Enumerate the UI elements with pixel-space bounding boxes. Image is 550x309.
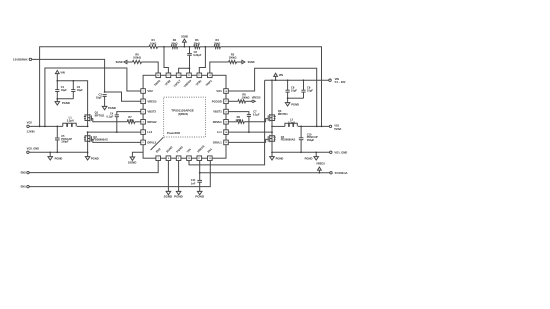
pin 24 TRIP2 bbox=[153, 73, 162, 87]
svg-text:VO2_GND: VO2_GND bbox=[27, 147, 40, 151]
wire LL2 bbox=[88, 131, 141, 133]
terminal VO1 bbox=[329, 123, 341, 131]
capacitor C1 bbox=[55, 81, 67, 99]
wire pin 10 VIN riser bbox=[189, 80, 265, 165]
ground PGND pin 9 bbox=[174, 191, 183, 198]
svg-text:DRVH1: DRVH1 bbox=[213, 120, 223, 124]
svg-text:IRF7811: IRF7811 bbox=[95, 113, 105, 117]
terminal VIN input left bbox=[13, 58, 32, 62]
wire tap to pin VFB2 bbox=[164, 47, 168, 73]
svg-text:PGND: PGND bbox=[305, 156, 313, 160]
svg-text:10µF: 10µF bbox=[61, 88, 67, 92]
svg-text:VIN: VIN bbox=[60, 70, 64, 74]
svg-text:PGOOD: PGOOD bbox=[212, 99, 222, 103]
node VIN flag right bbox=[274, 73, 283, 80]
svg-text:100kΩ: 100kΩ bbox=[133, 56, 141, 60]
svg-text:SGND: SGND bbox=[181, 35, 188, 38]
pin 22 V5FILT bbox=[173, 73, 182, 88]
svg-text:PGND: PGND bbox=[291, 103, 299, 107]
pin 7 EN2 bbox=[155, 147, 162, 161]
svg-text:10kΩ: 10kΩ bbox=[150, 41, 156, 45]
capacitor C6 bbox=[187, 47, 202, 73]
pin 21 VREG3 bbox=[183, 73, 193, 88]
wire VO1 output line bbox=[272, 125, 329, 127]
ground PGND under C3 bbox=[102, 106, 116, 110]
svg-text:(QFN24): (QFN24) bbox=[178, 112, 188, 116]
ground PGND under Q2 bbox=[85, 152, 98, 160]
svg-text:VO2: VO2 bbox=[27, 120, 33, 124]
svg-text:0.1µF: 0.1µF bbox=[253, 112, 260, 116]
svg-text:VO1_GND: VO1_GND bbox=[334, 150, 347, 154]
pin 18 VO1 bbox=[216, 89, 228, 94]
transistor Q4 bbox=[268, 126, 295, 152]
svg-text:EN1: EN1 bbox=[21, 185, 27, 189]
wire VO1 sense loop bbox=[228, 68, 316, 126]
svg-text:PGND: PGND bbox=[174, 195, 183, 199]
ground PGND under Q4 bbox=[270, 152, 284, 160]
pin 3 VBST2 bbox=[141, 109, 157, 114]
svg-text:39kΩ: 39kΩ bbox=[214, 41, 220, 45]
ground SGND flag on rail bbox=[181, 35, 188, 46]
capacitor C10 bbox=[299, 126, 318, 152]
svg-text:SGND: SGND bbox=[128, 160, 137, 164]
svg-text:100kΩ: 100kΩ bbox=[229, 56, 237, 60]
svg-text:150µF: 150µF bbox=[61, 139, 69, 143]
inductor L1 bbox=[63, 116, 76, 127]
svg-text:PGND: PGND bbox=[108, 106, 116, 110]
wire VO2 sense loop bbox=[45, 68, 141, 126]
terminal EN1 bbox=[21, 185, 30, 189]
pin 5 LL2 bbox=[141, 130, 153, 135]
svg-text:VREG5: VREG5 bbox=[147, 99, 157, 103]
svg-text:C11: C11 bbox=[191, 178, 196, 182]
svg-text:3.3µH: 3.3µH bbox=[67, 119, 74, 123]
wire pin 11 VREG5 bbox=[199, 161, 201, 181]
svg-text:0.1µF: 0.1µF bbox=[107, 115, 114, 119]
op-amp U1 TPS51120 chip outline bbox=[143, 75, 226, 158]
capacitor C4 bbox=[107, 112, 141, 133]
wire tap to pin VFB1 bbox=[199, 47, 205, 73]
terminal EN2 bbox=[21, 171, 30, 175]
U1 PowerPAD label and leader bbox=[151, 131, 181, 150]
pin 13 DRVL1 bbox=[213, 140, 228, 145]
svg-text:PGND: PGND bbox=[276, 156, 284, 160]
terminal VO1_GND bbox=[330, 150, 348, 154]
ground PGND right on ground line bbox=[305, 152, 319, 160]
svg-text:10µF: 10µF bbox=[96, 95, 102, 99]
svg-text:5.5 ~ 28V: 5.5 ~ 28V bbox=[335, 80, 346, 84]
svg-text:PGND: PGND bbox=[62, 101, 70, 105]
pin 17 PGOOD bbox=[212, 99, 229, 104]
node junction dots bbox=[39, 46, 323, 174]
resistor R1 bbox=[149, 38, 158, 48]
wire VIN local left bbox=[57, 81, 87, 115]
svg-text:20kΩ: 20kΩ bbox=[194, 41, 200, 45]
pin 23 VFB2 bbox=[164, 73, 172, 87]
node VREG5 flag bbox=[316, 161, 325, 172]
wire EN1 to pin 12 bbox=[29, 161, 210, 187]
svg-text:DRVL1: DRVL1 bbox=[213, 140, 222, 144]
wire DRVH2 with resistor R7 bbox=[91, 115, 140, 123]
svg-text:SGND: SGND bbox=[116, 61, 123, 64]
pin 6 DRVL2 bbox=[141, 140, 157, 145]
pin 10 VIN bbox=[186, 148, 192, 161]
svg-text:1nF: 1nF bbox=[191, 181, 196, 185]
svg-text:EN2: EN2 bbox=[21, 171, 27, 175]
svg-text:4.7Ω: 4.7Ω bbox=[235, 118, 241, 122]
transistor Q3 bbox=[268, 80, 288, 126]
resistor R3 bbox=[194, 38, 200, 48]
svg-text:FDS6690AS: FDS6690AS bbox=[93, 138, 108, 142]
svg-text:PGND: PGND bbox=[195, 195, 204, 199]
pin 9 PGND bbox=[175, 145, 183, 160]
wire LL1 bbox=[228, 131, 272, 133]
wire DRVH1 with resistor R9 bbox=[228, 115, 268, 123]
capacitor C2 bbox=[71, 81, 83, 99]
svg-text:5V/8A: 5V/8A bbox=[334, 127, 341, 131]
pin 15 DRVH1 bbox=[213, 120, 229, 125]
svg-text:PowerPAD: PowerPAD bbox=[167, 131, 180, 135]
pin 1 VO2 bbox=[141, 89, 153, 94]
resistor R2 bbox=[171, 38, 177, 48]
svg-text:SGND: SGND bbox=[248, 61, 255, 64]
pin 8 SGND bbox=[165, 145, 173, 160]
wire feedback rail bbox=[40, 47, 322, 127]
svg-text:4.7Ω: 4.7Ω bbox=[127, 118, 133, 122]
svg-text:PGND: PGND bbox=[91, 156, 99, 160]
resistor R6 bbox=[127, 53, 158, 73]
pin 19 TRIP1 bbox=[205, 73, 214, 87]
capacitor C3 bbox=[96, 92, 107, 106]
terminal VREG5 5V output bbox=[330, 171, 348, 175]
wire EN2 to pin 7 bbox=[29, 161, 158, 173]
svg-text:10µF: 10µF bbox=[291, 88, 297, 92]
svg-text:5V/100mA: 5V/100mA bbox=[335, 171, 348, 175]
U1 dashed body bbox=[164, 97, 206, 137]
terminal VO2_GND bbox=[27, 147, 40, 154]
wire C1 C2 join bbox=[57, 98, 73, 100]
ground PGND under C1 bbox=[55, 99, 70, 105]
pin 14 LL1 bbox=[217, 130, 228, 135]
pin 12 EN1 bbox=[206, 147, 213, 161]
svg-text:0.22µF: 0.22µF bbox=[193, 53, 202, 57]
svg-text:VBST1: VBST1 bbox=[213, 110, 222, 114]
terminal VIN right bbox=[329, 77, 346, 84]
capacitor C5 bbox=[55, 126, 72, 152]
ground PGND pin 11 bbox=[195, 191, 204, 198]
wire chip pad to SGND bbox=[132, 152, 143, 157]
ground PGND under C8 bbox=[285, 98, 299, 106]
svg-text:3.3µH: 3.3µH bbox=[288, 120, 295, 124]
node VREG5 flag at R8 bbox=[252, 96, 261, 103]
wire VREG5 line to terminal bbox=[200, 172, 330, 174]
pin 16 VBST1 bbox=[213, 109, 228, 114]
svg-text:FDS6690AS: FDS6690AS bbox=[281, 138, 296, 142]
transistor Q2 bbox=[84, 132, 108, 152]
svg-text:PGND: PGND bbox=[55, 156, 63, 160]
svg-text:150µF: 150µF bbox=[307, 138, 315, 142]
wire input top bbox=[32, 59, 105, 92]
pin 2 VREG5 bbox=[141, 99, 157, 104]
svg-text:VO2: VO2 bbox=[147, 89, 153, 93]
wire pin 9 to ground bbox=[178, 161, 180, 192]
svg-text:10µF: 10µF bbox=[307, 88, 313, 92]
svg-text:3.3V/8A: 3.3V/8A bbox=[27, 130, 35, 134]
svg-text:VBST2: VBST2 bbox=[147, 110, 156, 114]
svg-text:VO1: VO1 bbox=[216, 89, 222, 93]
svg-text:VIN: VIN bbox=[279, 73, 283, 77]
capacitor C11 bbox=[191, 178, 202, 191]
wire DRVL1 bbox=[228, 139, 268, 142]
ground PGND on VO2 ground line bbox=[48, 152, 63, 160]
wire DRVL2 bbox=[91, 139, 140, 142]
svg-text:VO1: VO1 bbox=[334, 123, 340, 127]
wire VO2 ground line bbox=[29, 151, 88, 153]
wire pin 8 to ground bbox=[167, 161, 169, 192]
transistor Q1 bbox=[84, 110, 105, 126]
pin 4 DRVH2 bbox=[141, 120, 157, 125]
svg-text:100kΩ: 100kΩ bbox=[242, 96, 250, 100]
wire VIN line right bbox=[265, 79, 329, 81]
resistor R5 bbox=[210, 53, 243, 73]
pin 20 VFB1 bbox=[195, 73, 203, 87]
capacitor C8 bbox=[286, 80, 298, 98]
svg-text:DRVH2: DRVH2 bbox=[147, 120, 157, 124]
svg-text:LL2: LL2 bbox=[147, 130, 152, 134]
svg-text:20kΩ: 20kΩ bbox=[171, 41, 177, 45]
terminal VO2 bbox=[27, 120, 35, 133]
wire C8 C9 join bbox=[288, 97, 304, 99]
resistor R8 bbox=[228, 92, 252, 103]
svg-text:10µF: 10µF bbox=[77, 88, 83, 92]
svg-text:SGND: SGND bbox=[164, 195, 173, 199]
ground SGND at chip pad bbox=[128, 157, 137, 164]
svg-text:VREG5: VREG5 bbox=[316, 161, 325, 165]
pin 11 VREG5 bbox=[196, 144, 206, 161]
wire tap to pin V5FILT bbox=[179, 68, 190, 73]
svg-text:5.5V/28VMAX: 5.5V/28VMAX bbox=[13, 58, 28, 62]
wire VO1 ground line bbox=[272, 151, 330, 153]
wire input to pin VREG5 bbox=[105, 92, 141, 101]
svg-text:LL1: LL1 bbox=[217, 130, 222, 134]
resistor R4 bbox=[214, 38, 220, 48]
wire VO2 output line bbox=[29, 125, 87, 127]
capacitor C7 bbox=[228, 109, 260, 132]
ground SGND flag right of R5 bbox=[242, 60, 255, 64]
node VIN flag left bbox=[55, 70, 64, 81]
capacitor C9 bbox=[301, 80, 313, 98]
ground SGND pin 8 bbox=[164, 191, 173, 198]
svg-text:VREG5: VREG5 bbox=[252, 96, 261, 100]
svg-text:IRF7811: IRF7811 bbox=[278, 112, 288, 116]
inductor L2 bbox=[285, 117, 297, 126]
svg-text:DRVL2: DRVL2 bbox=[147, 140, 156, 144]
ground SGND flag left of R6 bbox=[116, 60, 127, 64]
